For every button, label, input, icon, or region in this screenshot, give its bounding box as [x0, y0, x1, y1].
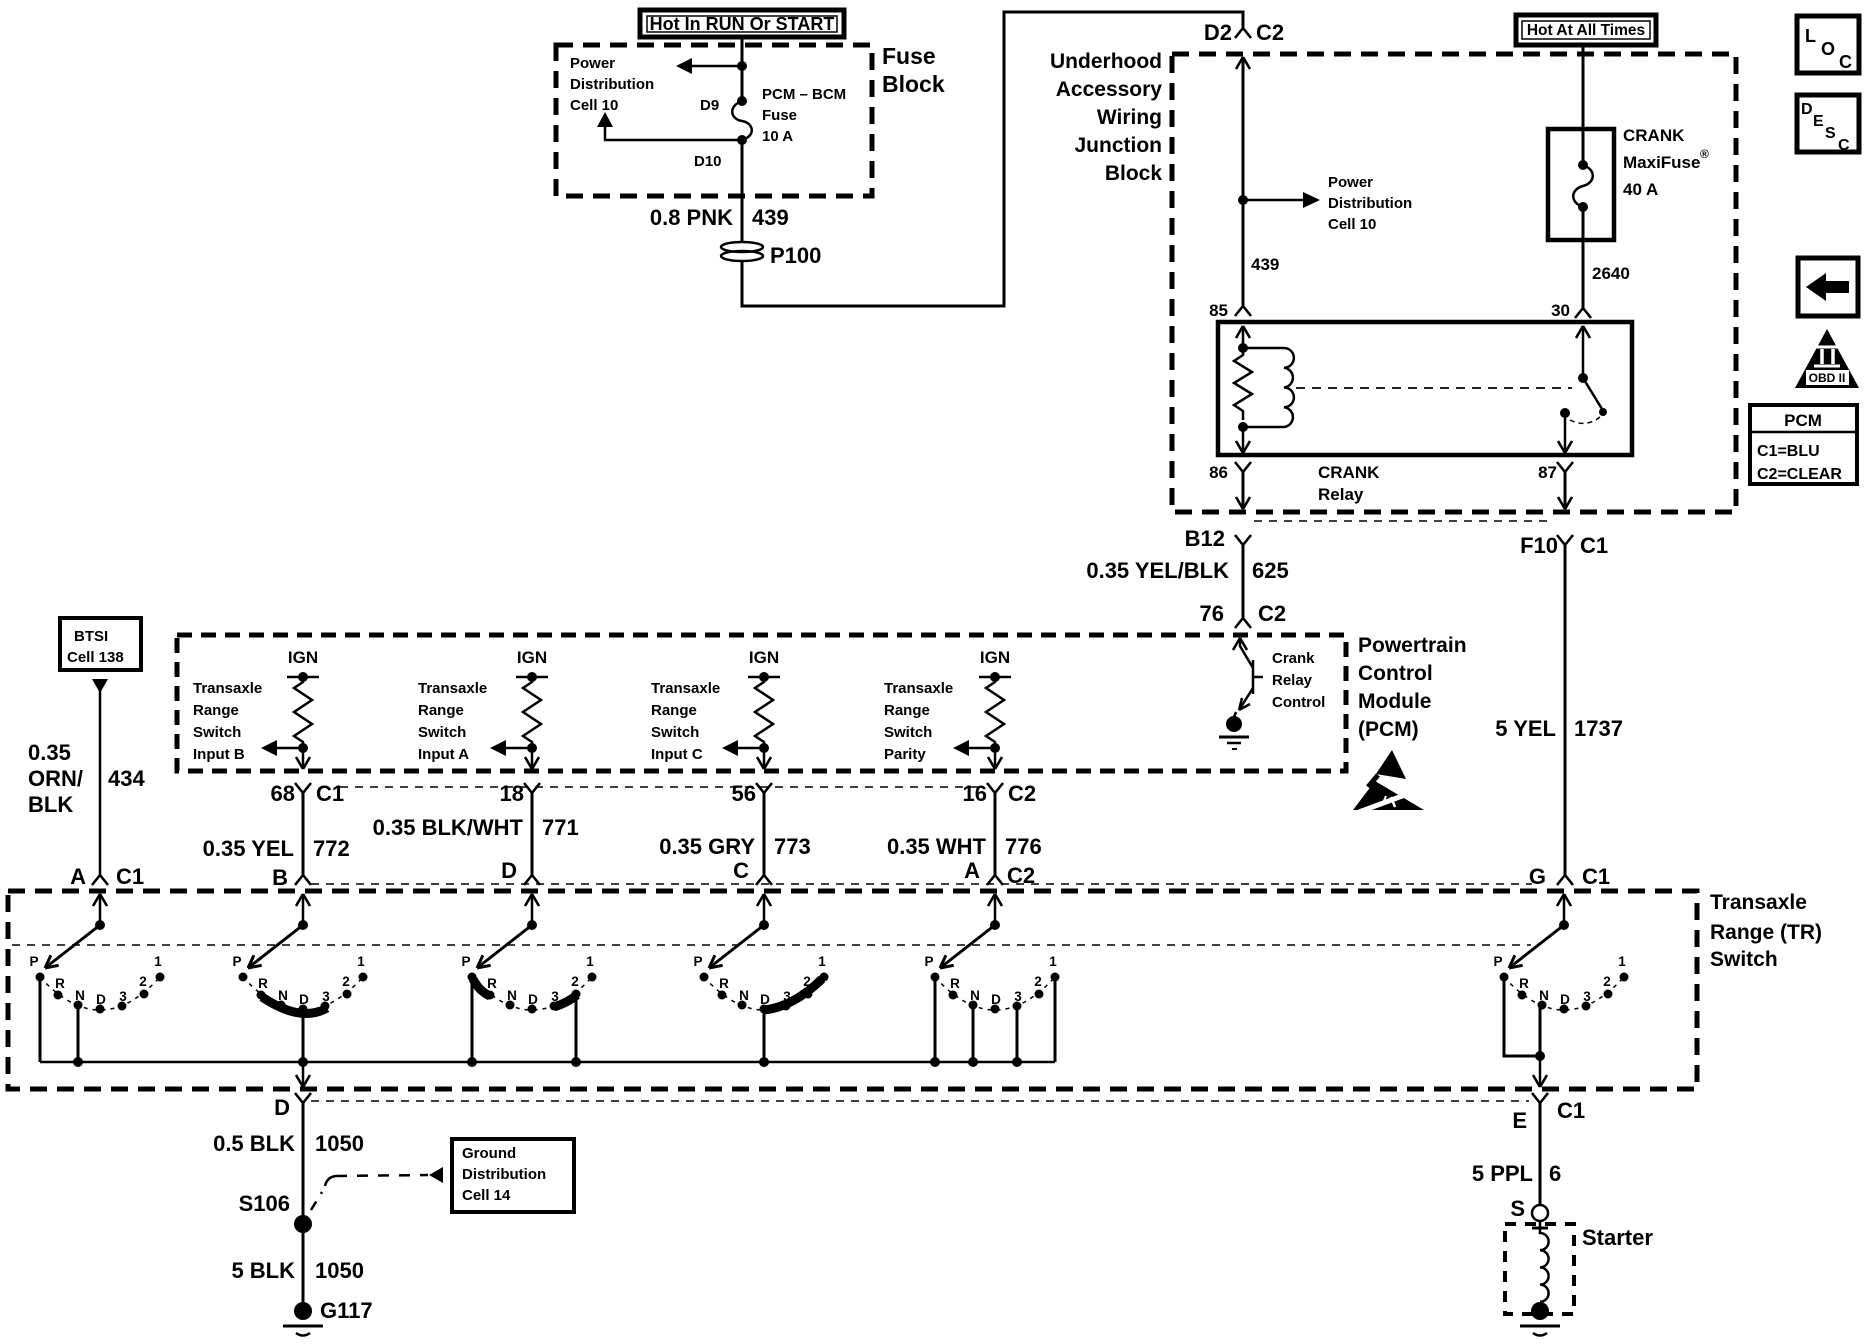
svg-text:771: 771	[542, 815, 579, 840]
rotary switch wafer S6 (starter feed)	[1493, 894, 1628, 1014]
svg-text:3: 3	[322, 989, 330, 1004]
svg-text:Distribution: Distribution	[570, 76, 654, 93]
thin dashed connector line row C1/C2	[340, 786, 985, 788]
svg-text:N: N	[970, 988, 980, 1003]
thin dashed line inside TR switch	[12, 944, 1531, 946]
dashed leader to Ground Distribution	[311, 1167, 443, 1210]
svg-text:P: P	[693, 954, 702, 969]
svg-text:(PCM): (PCM)	[1358, 718, 1419, 741]
legend PCM connector colors box	[1750, 405, 1857, 484]
svg-text:O: O	[1821, 39, 1835, 59]
connector 76 C2	[1235, 618, 1251, 628]
svg-text:S: S	[1825, 125, 1836, 142]
svg-text:Cell 10: Cell 10	[570, 97, 618, 114]
svg-text:D2: D2	[1204, 20, 1232, 45]
node D10	[737, 135, 747, 145]
svg-text:1050: 1050	[315, 1131, 364, 1156]
svg-text:R: R	[950, 976, 960, 991]
svg-text:2: 2	[1603, 974, 1611, 989]
svg-text:0.35 GRY: 0.35 GRY	[659, 834, 755, 859]
resistor IGN pull-up 3	[748, 648, 780, 753]
PCM dashed box	[177, 635, 1346, 771]
connector E C1	[1532, 1093, 1548, 1103]
svg-text:D: D	[274, 1095, 290, 1120]
svg-text:MaxiFuse: MaxiFuse	[1623, 153, 1700, 172]
svg-text:B: B	[272, 865, 288, 890]
wire from Hot At All Times down	[1582, 45, 1585, 165]
svg-text:C: C	[1839, 52, 1852, 72]
svg-text:2: 2	[342, 974, 350, 989]
ESD warning symbol	[1353, 750, 1424, 812]
label Transaxle Range Switch Parity	[884, 680, 953, 763]
rotary switch wafer S3 (input A)	[461, 894, 596, 1014]
svg-text:G117: G117	[320, 1298, 373, 1323]
connector pin A TR switch	[964, 858, 1035, 888]
svg-text:30: 30	[1551, 301, 1570, 320]
svg-text:68: 68	[271, 781, 295, 806]
contact strip arc S2 R-N-D-3	[262, 997, 327, 1013]
svg-text:Accessory: Accessory	[1056, 78, 1163, 101]
svg-text:CRANK: CRANK	[1318, 463, 1380, 482]
wire bus to pin D	[296, 1062, 310, 1087]
svg-text:N: N	[1539, 988, 1549, 1003]
icon back arrow box	[1798, 258, 1858, 316]
fuse block dashed box	[556, 45, 872, 196]
svg-text:0.5 BLK: 0.5 BLK	[213, 1131, 295, 1156]
svg-text:C2: C2	[1256, 20, 1284, 45]
svg-text:2: 2	[571, 974, 579, 989]
thin dashed connector line below TR switch	[311, 1100, 1529, 1102]
arrow to Power Distribution Cell 10 (left)	[690, 65, 742, 68]
starter dashed box	[1505, 1224, 1574, 1314]
svg-text:D: D	[1560, 992, 1570, 1007]
connector A C1	[92, 875, 108, 885]
wire S6 P contact to output	[1504, 977, 1540, 1056]
svg-text:C: C	[733, 858, 749, 883]
node junction on feed wire	[737, 61, 747, 71]
svg-text:Power: Power	[570, 55, 615, 72]
svg-text:Hot At All Times: Hot At All Times	[1527, 22, 1645, 39]
transistor crank relay control	[1219, 638, 1263, 749]
svg-text:Distribution: Distribution	[1328, 195, 1412, 212]
svg-text:56: 56	[732, 781, 756, 806]
svg-text:ORN/: ORN/	[28, 766, 83, 791]
svg-text:A: A	[964, 858, 980, 883]
svg-text:773: 773	[774, 834, 811, 859]
svg-text:Hot In RUN Or START: Hot In RUN Or START	[650, 14, 835, 34]
svg-text:18: 18	[500, 781, 524, 806]
svg-text:Parity: Parity	[884, 746, 926, 763]
svg-text:R: R	[487, 976, 497, 991]
svg-text:Switch: Switch	[418, 724, 466, 741]
wire 776	[887, 793, 1042, 875]
svg-text:IGN: IGN	[749, 648, 779, 667]
svg-text:N: N	[739, 988, 749, 1003]
resistor IGN pull-up 1	[287, 648, 319, 753]
svg-text:Control: Control	[1272, 694, 1325, 711]
svg-text:Range: Range	[651, 702, 697, 719]
svg-text:R: R	[55, 976, 65, 991]
svg-text:Relay: Relay	[1272, 672, 1313, 689]
relay resistor	[1234, 348, 1252, 420]
wire 773	[659, 793, 811, 875]
relay switch blade	[1583, 378, 1602, 409]
relay switch travel dashed arc	[1570, 417, 1600, 423]
svg-text:Input C: Input C	[651, 746, 703, 763]
svg-text:Cell 138: Cell 138	[67, 649, 124, 666]
svg-text:Cell 10: Cell 10	[1328, 216, 1376, 233]
wire S3 2 contact to bus	[571, 995, 581, 1067]
svg-text:Range: Range	[884, 702, 930, 719]
svg-text:434: 434	[108, 766, 145, 791]
svg-text:C1: C1	[1557, 1098, 1585, 1123]
connector pin 56	[732, 781, 772, 806]
svg-text:PCM: PCM	[1784, 411, 1822, 430]
svg-text:Switch: Switch	[651, 724, 699, 741]
svg-text:2: 2	[139, 974, 147, 989]
svg-text:772: 772	[313, 836, 350, 861]
svg-text:C1: C1	[1582, 864, 1610, 889]
wire to PCM connector pin 16	[988, 748, 1002, 769]
svg-text:Powertrain: Powertrain	[1358, 634, 1467, 657]
svg-text:Cell 14: Cell 14	[462, 1187, 511, 1204]
ground distribution cell 14 box	[452, 1139, 574, 1212]
svg-text:P: P	[461, 954, 470, 969]
svg-text:5 YEL: 5 YEL	[1495, 716, 1556, 741]
svg-text:1: 1	[586, 954, 594, 969]
svg-text:R: R	[258, 976, 268, 991]
relay coil	[1243, 348, 1294, 427]
relay coil output to 86	[1242, 427, 1245, 451]
svg-text:0.35 YEL/BLK: 0.35 YEL/BLK	[1086, 558, 1229, 583]
label box Hot In RUN Or START	[640, 10, 844, 37]
svg-text:Distribution: Distribution	[462, 1166, 546, 1183]
wire 2640	[1582, 207, 1585, 308]
svg-text:Input A: Input A	[418, 746, 469, 763]
svg-text:Starter: Starter	[1582, 1225, 1653, 1250]
svg-text:C1: C1	[316, 781, 344, 806]
svg-text:87: 87	[1538, 463, 1557, 482]
svg-text:1: 1	[154, 954, 162, 969]
arrow TR switch input A	[953, 740, 995, 756]
relay coil input pin 85	[1236, 326, 1250, 338]
svg-text:D9: D9	[700, 97, 719, 114]
svg-text:R: R	[719, 976, 729, 991]
connector pin B TR switch	[272, 865, 311, 890]
label Underhood Accessory Wiring Junction Block	[1050, 50, 1162, 185]
svg-text:D: D	[760, 992, 770, 1007]
relay contact 87	[1560, 408, 1570, 418]
wire 1737	[1564, 545, 1567, 875]
splice S106	[294, 1215, 312, 1233]
connector 85	[1235, 306, 1251, 316]
contact strip arc S3 P-R	[473, 979, 490, 996]
icon OBD II triangle	[1795, 329, 1859, 388]
connector pin D TR switch	[501, 858, 540, 885]
arrow from BTSI down	[92, 679, 108, 693]
svg-text:1: 1	[1049, 954, 1057, 969]
svg-text:®: ®	[1700, 147, 1709, 161]
svg-text:Transaxle: Transaxle	[193, 680, 262, 697]
wire 1050 upper	[302, 1103, 305, 1224]
svg-text:D: D	[1801, 101, 1813, 118]
wire from Hot In RUN into fuse block	[741, 37, 744, 101]
wire 6 purple	[1539, 1103, 1542, 1205]
wire to PCM connector pin 18	[525, 748, 539, 769]
relay actuation dashed line	[1296, 387, 1572, 389]
svg-text:E: E	[1813, 113, 1824, 130]
svg-text:L: L	[1805, 26, 1816, 46]
svg-text:OBD II: OBD II	[1809, 371, 1846, 385]
svg-text:P: P	[924, 954, 933, 969]
svg-text:3: 3	[1014, 989, 1022, 1004]
svg-text:A: A	[70, 864, 86, 889]
svg-text:D: D	[991, 992, 1001, 1007]
arrow up to Power Distribution (second)	[605, 124, 742, 140]
wire to PCM connector pin 68	[296, 748, 310, 769]
label box Hot At All Times	[1516, 15, 1656, 45]
svg-text:76: 76	[1200, 601, 1224, 626]
resistor IGN pull-up 2	[516, 648, 548, 753]
svg-text:Junction: Junction	[1075, 134, 1163, 157]
connector 87	[1557, 462, 1573, 472]
svg-text:Switch: Switch	[1710, 948, 1778, 971]
svg-text:5 PPL: 5 PPL	[1472, 1161, 1533, 1186]
rotary switch wafer S2 (input B)	[232, 894, 367, 1014]
svg-text:439: 439	[752, 205, 789, 230]
svg-text:86: 86	[1209, 463, 1228, 482]
svg-text:N: N	[507, 988, 517, 1003]
resistor IGN pull-up 4	[979, 648, 1011, 753]
svg-text:625: 625	[1252, 558, 1289, 583]
svg-text:C1: C1	[1580, 533, 1608, 558]
svg-text:Transaxle: Transaxle	[884, 680, 953, 697]
wire to PCM connector pin 56	[757, 748, 771, 769]
svg-text:3: 3	[119, 989, 127, 1004]
fuse PCM-BCM 10A symbol	[732, 101, 752, 140]
svg-text:P: P	[232, 954, 241, 969]
svg-text:Input B: Input B	[193, 746, 245, 763]
svg-text:PCM – BCM: PCM – BCM	[762, 86, 846, 103]
svg-text:16: 16	[963, 781, 987, 806]
svg-text:0.35 WHT: 0.35 WHT	[887, 834, 987, 859]
svg-text:BTSI: BTSI	[74, 628, 108, 645]
underhood accessory wiring junction block dashed box	[1172, 54, 1736, 512]
svg-text:Transaxle: Transaxle	[1710, 891, 1807, 914]
svg-text:0.35: 0.35	[28, 740, 71, 765]
arrow TR switch input B	[261, 740, 303, 756]
wire 1050 lower	[302, 1224, 305, 1302]
svg-text:439: 439	[1251, 255, 1279, 274]
connector C1 dashed link line	[1254, 520, 1554, 522]
wire 771	[373, 793, 579, 875]
node D9	[737, 96, 747, 106]
wire 434	[99, 690, 102, 875]
svg-text:BLK: BLK	[28, 792, 73, 817]
svg-text:Ground: Ground	[462, 1145, 516, 1162]
connector 86	[1235, 462, 1251, 472]
BTSI Cell 138 box	[60, 618, 141, 670]
svg-text:2: 2	[1034, 974, 1042, 989]
wire 439 pink leaving fuse block	[741, 140, 744, 241]
svg-text:IGN: IGN	[517, 648, 547, 667]
svg-text:Underhood: Underhood	[1050, 50, 1162, 73]
svg-text:3: 3	[1583, 989, 1591, 1004]
svg-text:40 A: 40 A	[1623, 180, 1658, 199]
label Transaxle Range Switch Input A	[418, 680, 487, 763]
svg-text:Range: Range	[418, 702, 464, 719]
connector D2 C2	[1235, 28, 1251, 38]
svg-text:C2: C2	[1008, 781, 1036, 806]
arrow TR switch input D	[490, 740, 532, 756]
svg-text:Range (TR): Range (TR)	[1710, 921, 1822, 944]
rotary switch wafer S1 (input from BTSI pin A)	[29, 894, 164, 1014]
node to power distribution	[1238, 195, 1248, 205]
connector pin 18	[500, 781, 540, 806]
ground G117	[283, 1298, 373, 1336]
svg-text:R: R	[1519, 976, 1529, 991]
connector pin 68	[271, 781, 345, 806]
icon DESC box	[1797, 95, 1859, 154]
svg-text:E: E	[1512, 1108, 1527, 1133]
svg-text:85: 85	[1209, 301, 1228, 320]
arrow to Power Distribution Cell 10 (right)	[1243, 199, 1305, 202]
svg-text:Transaxle: Transaxle	[418, 680, 487, 697]
icon LOC box	[1797, 16, 1859, 73]
svg-text:Relay: Relay	[1318, 485, 1364, 504]
wire S4 D contact to bus	[759, 1009, 769, 1067]
svg-text:F10: F10	[1520, 533, 1558, 558]
ground starter case	[1520, 1302, 1560, 1336]
thin dashed connector line row TR	[311, 883, 1532, 885]
connector B12	[1235, 535, 1251, 545]
wire S5 3 contact to bus	[1012, 1006, 1022, 1067]
wire S5 1 contact to bus	[1054, 977, 1057, 1062]
svg-text:Switch: Switch	[884, 724, 932, 741]
wire 772	[203, 793, 350, 875]
svg-text:Power: Power	[1328, 174, 1373, 191]
svg-text:CRANK: CRANK	[1623, 126, 1685, 145]
label Transaxle Range Switch Input B	[193, 680, 262, 763]
starter solenoid coil	[1532, 1221, 1549, 1302]
svg-text:5 BLK: 5 BLK	[231, 1258, 295, 1283]
arrow TR switch input C	[722, 740, 764, 756]
svg-text:Switch: Switch	[193, 724, 241, 741]
connector pin 16	[963, 781, 1037, 806]
svg-text:G: G	[1529, 864, 1546, 889]
svg-text:D: D	[528, 992, 538, 1007]
rotary switch wafer S5 (parity)	[924, 894, 1059, 1014]
transaxle range TR switch dashed box	[8, 891, 1697, 1089]
svg-text:N: N	[278, 988, 288, 1003]
wire S1 P contact to bus	[39, 977, 42, 1062]
svg-text:1: 1	[1618, 954, 1626, 969]
svg-text:0.35 YEL: 0.35 YEL	[203, 836, 294, 861]
svg-text:S: S	[1510, 1196, 1525, 1221]
svg-text:C: C	[1838, 137, 1850, 154]
svg-text:N: N	[75, 988, 85, 1003]
svg-text:2640: 2640	[1592, 264, 1630, 283]
svg-text:0.8 PNK: 0.8 PNK	[650, 205, 733, 230]
svg-text:6: 6	[1549, 1161, 1561, 1186]
svg-text:D: D	[299, 992, 309, 1007]
label Transaxle Range (TR) Switch	[1710, 891, 1822, 971]
svg-text:10 A: 10 A	[762, 128, 793, 145]
svg-text:Control: Control	[1358, 662, 1433, 685]
crank relay box	[1218, 322, 1632, 455]
svg-text:D: D	[96, 992, 106, 1007]
common bus wire to ground output D	[40, 1061, 1055, 1064]
wire S6 to pin E	[1533, 1056, 1547, 1087]
svg-text:C1=BLU: C1=BLU	[1757, 443, 1820, 460]
wire S5 P contact to bus	[930, 977, 940, 1067]
svg-text:IGN: IGN	[288, 648, 318, 667]
svg-text:IGN: IGN	[980, 648, 1010, 667]
svg-text:1: 1	[818, 954, 826, 969]
svg-text:Fuse: Fuse	[882, 43, 936, 69]
wire 439 inside junction block	[1236, 57, 1250, 69]
svg-text:B12: B12	[1185, 526, 1225, 551]
wire from P100 to junction block (routed right and up)	[742, 12, 1243, 306]
svg-text:Range: Range	[193, 702, 239, 719]
svg-text:D: D	[501, 858, 517, 883]
svg-text:1: 1	[357, 954, 365, 969]
wire S3 P contact to bus	[467, 977, 477, 1067]
svg-text:C1: C1	[116, 864, 144, 889]
svg-text:776: 776	[1005, 834, 1042, 859]
svg-text:Block: Block	[882, 71, 945, 97]
svg-text:Wiring: Wiring	[1097, 106, 1162, 129]
svg-text:S106: S106	[239, 1191, 290, 1216]
svg-text:P: P	[1493, 954, 1502, 969]
rotary switch wafer S4 (input C)	[693, 894, 828, 1014]
svg-text:C2: C2	[1258, 601, 1286, 626]
wire S1 N contact to bus	[73, 1005, 83, 1067]
contact strip arc S3 3-2	[554, 995, 577, 1007]
svg-text:Fuse: Fuse	[762, 107, 797, 124]
wire 625	[1242, 545, 1245, 618]
svg-text:D10: D10	[694, 153, 722, 170]
svg-text:Transaxle: Transaxle	[651, 680, 720, 697]
svg-text:1050: 1050	[315, 1258, 364, 1283]
svg-text:Module: Module	[1358, 690, 1432, 713]
svg-text:0.35 BLK/WHT: 0.35 BLK/WHT	[373, 815, 524, 840]
connector D	[295, 1093, 311, 1103]
CRANK MaxiFuse 40A	[1548, 129, 1614, 240]
svg-text:Crank: Crank	[1272, 650, 1315, 667]
wire S5 N contact to bus	[968, 1005, 978, 1067]
svg-text:P100: P100	[770, 243, 821, 268]
svg-text:Block: Block	[1105, 162, 1163, 185]
label Powertrain Control Module (PCM)	[1358, 634, 1467, 741]
svg-text:1737: 1737	[1574, 716, 1623, 741]
connector F10 C1	[1557, 535, 1573, 545]
wire S2 D contact to bus	[298, 1009, 308, 1067]
label Transaxle Range Switch Input C	[651, 680, 720, 763]
contact strip arc S4 D-3-2-1	[764, 979, 822, 1010]
relay switch pin 30	[1576, 326, 1590, 338]
connector 30	[1575, 308, 1591, 318]
connector pin C TR switch	[733, 858, 772, 885]
connector G C1	[1557, 875, 1573, 885]
connector P100	[721, 242, 821, 268]
svg-text:C2=CLEAR: C2=CLEAR	[1757, 466, 1842, 483]
svg-text:P: P	[29, 954, 38, 969]
wire S6 N contact to output E	[1535, 1005, 1545, 1061]
